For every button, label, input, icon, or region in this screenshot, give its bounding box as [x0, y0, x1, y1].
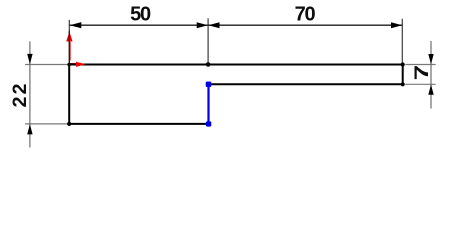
- profile: thin-section bottom edge: [209, 83, 404, 85]
- dimension 22: lower arrowhead (points up): [27, 124, 32, 134]
- dimension 50/70: middle extension line: [207, 18, 209, 64]
- node: top edge junction: [206, 62, 211, 67]
- profile: left edge: [68, 64, 70, 125]
- dimension 7: upper arrowhead (points down): [428, 54, 433, 64]
- node: top-right corner: [401, 62, 405, 66]
- dimension 7: lower arrowhead (points up): [428, 85, 433, 95]
- svg-text:22: 22: [9, 81, 31, 107]
- svg-text:7: 7: [411, 65, 433, 80]
- node: origin corner: [67, 63, 71, 67]
- dimension 50/70: dimension line: [70, 24, 403, 26]
- origin: red X-axis arrowhead (over edge): [76, 62, 86, 67]
- dimension 7: top extension line: [405, 64, 435, 66]
- dimension 22: bottom extension line: [25, 123, 68, 125]
- node: bottom-right of thin section: [401, 82, 405, 86]
- dimension 22: dimension line: [29, 41, 31, 147]
- profile: right edge: [402, 64, 404, 86]
- dimension 50: right arrowhead: [197, 22, 208, 28]
- dimension 7: bottom extension line: [405, 83, 435, 85]
- dimension 50: left arrowhead: [70, 22, 82, 28]
- origin: red X-axis arrow: [70, 63, 78, 65]
- node: step top (blue): [206, 82, 212, 88]
- dimension 50: left extension line: [68, 20, 70, 64]
- dimension 70: right arrowhead: [391, 22, 402, 28]
- dimension 22: top extension line: [25, 64, 68, 66]
- dimension 7: dimension line: [430, 41, 432, 109]
- node: step bottom (blue): [206, 121, 211, 126]
- dimension 70: right extension line: [401, 19, 403, 64]
- svg-text:70: 70: [295, 4, 316, 26]
- dimension 22: upper arrowhead (points down): [27, 54, 32, 64]
- profile: bottom edge: [68, 123, 208, 125]
- profile: step edge (selected, blue): [207, 84, 209, 124]
- profile: top edge: [68, 64, 404, 66]
- origin: red Y-axis arrow: [69, 42, 71, 61]
- origin: extension line overlay on Y arrow: [68, 31, 70, 64]
- svg-text:50: 50: [130, 4, 151, 26]
- node: bottom-left corner: [67, 122, 71, 126]
- dimension 70: left arrowhead: [208, 22, 219, 28]
